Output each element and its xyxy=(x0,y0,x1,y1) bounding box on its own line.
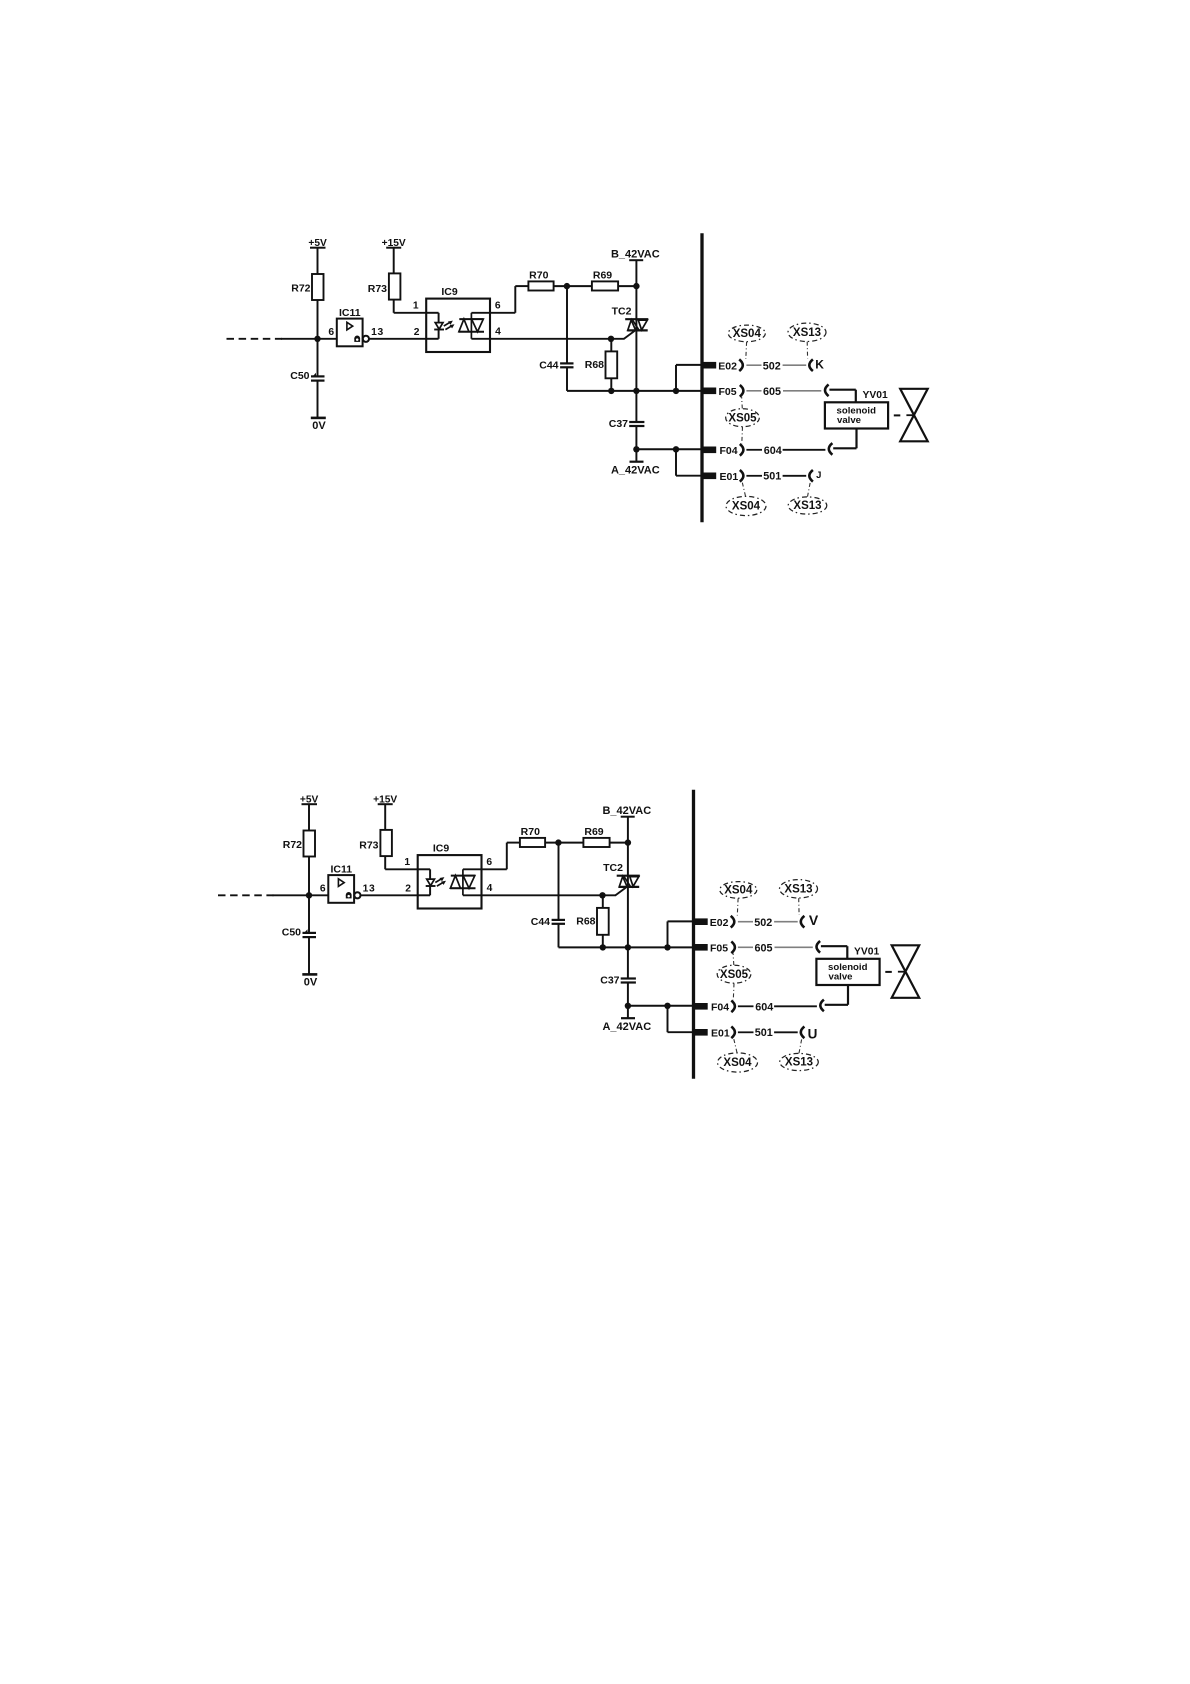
svg-text:502: 502 xyxy=(763,360,781,372)
svg-text:YV01: YV01 xyxy=(863,390,888,401)
svg-text:4: 4 xyxy=(495,327,501,338)
svg-text:XS13: XS13 xyxy=(793,327,821,339)
svg-text:K: K xyxy=(815,357,824,371)
svg-text:J: J xyxy=(816,470,821,481)
svg-text:XS04: XS04 xyxy=(733,328,762,340)
svg-text:V: V xyxy=(809,912,819,928)
svg-text:E02: E02 xyxy=(718,360,737,372)
svg-text:XS04: XS04 xyxy=(732,501,761,513)
svg-text:U: U xyxy=(808,1027,818,1042)
svg-text:TC2: TC2 xyxy=(612,305,632,317)
svg-text:A_42VAC: A_42VAC xyxy=(611,465,660,477)
svg-text:C44: C44 xyxy=(539,360,558,372)
svg-text:501: 501 xyxy=(763,471,781,483)
svg-text:605: 605 xyxy=(763,386,781,398)
svg-text:F04: F04 xyxy=(720,445,738,457)
svg-text:valve: valve xyxy=(837,415,861,426)
svg-text:0V: 0V xyxy=(312,420,326,432)
svg-text:R72: R72 xyxy=(291,283,310,295)
svg-text:C50: C50 xyxy=(290,370,309,382)
svg-text:IC9: IC9 xyxy=(441,286,458,298)
svg-text:F05: F05 xyxy=(719,386,737,398)
svg-text:R69: R69 xyxy=(593,270,612,282)
svg-text:604: 604 xyxy=(764,445,782,457)
svg-text:E01: E01 xyxy=(720,471,739,483)
svg-text:XS13: XS13 xyxy=(793,500,821,512)
svg-text:XS05: XS05 xyxy=(728,412,757,424)
svg-text:R68: R68 xyxy=(585,359,604,371)
svg-text:13: 13 xyxy=(371,327,384,338)
svg-text:R73: R73 xyxy=(368,283,387,295)
svg-text:1: 1 xyxy=(413,301,419,312)
svg-text:6: 6 xyxy=(328,327,334,338)
svg-text:IC11: IC11 xyxy=(339,307,361,319)
svg-text:6: 6 xyxy=(495,301,501,312)
svg-text:B_42VAC: B_42VAC xyxy=(611,249,660,261)
svg-text:2: 2 xyxy=(414,327,420,338)
svg-text:C37: C37 xyxy=(609,418,628,430)
svg-text:R70: R70 xyxy=(529,270,548,282)
